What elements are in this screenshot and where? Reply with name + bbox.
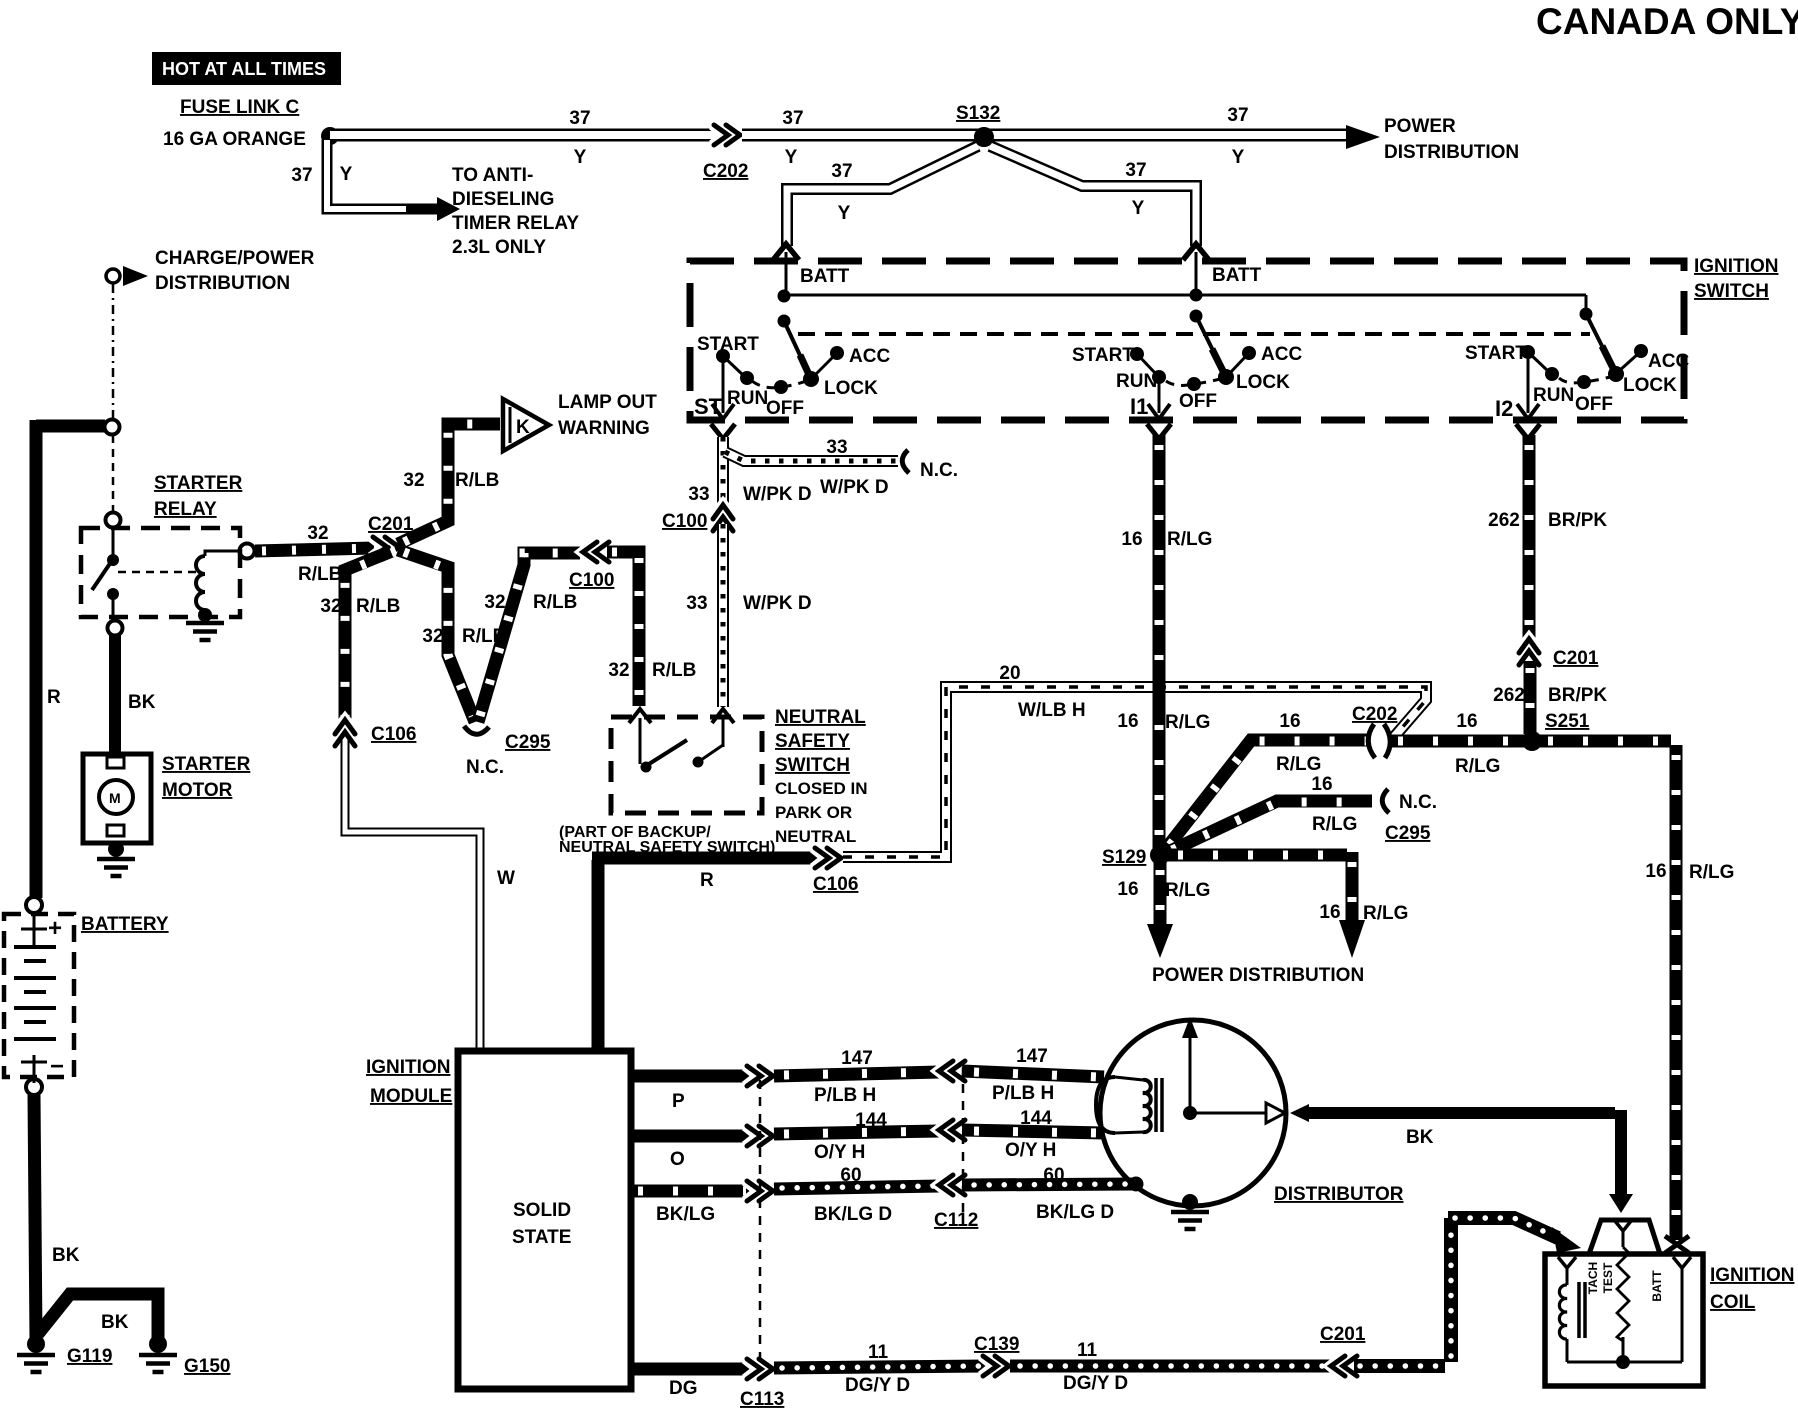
- svg-text:DISTRIBUTOR: DISTRIBUTOR: [1274, 1184, 1404, 1205]
- connector C112 pin P: [939, 1060, 966, 1082]
- svg-text:R/LG: R/LG: [1455, 756, 1500, 777]
- wire 11 DG/Y D C139 to C201: [1010, 1340, 1330, 1394]
- svg-text:32: 32: [307, 523, 328, 544]
- svg-text:S129: S129: [1102, 847, 1146, 868]
- wire 262 BR/PK I2 to C201: [1488, 435, 1607, 640]
- terminal I2 cup: [1516, 424, 1540, 439]
- lamp out warning indicator K: [503, 392, 657, 451]
- switch wafer 2: [1072, 289, 1302, 420]
- svg-text:C201: C201: [1320, 1324, 1366, 1345]
- connector C201: [368, 514, 414, 558]
- svg-text:16: 16: [1311, 774, 1332, 795]
- svg-text:DG/Y D: DG/Y D: [1063, 1373, 1128, 1394]
- terminal ST cup: [711, 424, 735, 439]
- svg-text:HOT AT ALL TIMES: HOT AT ALL TIMES: [162, 59, 326, 79]
- svg-text:R/LG: R/LG: [1165, 880, 1210, 901]
- svg-text:N.C.: N.C.: [466, 757, 504, 778]
- svg-text:262: 262: [1493, 685, 1525, 706]
- svg-text:DG: DG: [669, 1378, 698, 1399]
- svg-text:262: 262: [1488, 510, 1520, 531]
- svg-text:C106: C106: [813, 874, 858, 895]
- svg-text:144: 144: [855, 1110, 887, 1131]
- svg-text:W/PK D: W/PK D: [820, 477, 889, 498]
- svg-text:SAFETY: SAFETY: [775, 731, 850, 752]
- svg-text:2.3L ONLY: 2.3L ONLY: [452, 237, 546, 258]
- svg-text:START: START: [1465, 343, 1527, 364]
- svg-text:OFF: OFF: [1575, 394, 1613, 415]
- svg-text:32: 32: [403, 470, 424, 491]
- svg-text:LOCK: LOCK: [1236, 372, 1290, 393]
- svg-text:RUN: RUN: [1116, 371, 1157, 392]
- svg-text:MODULE: MODULE: [370, 1086, 452, 1107]
- svg-text:C100: C100: [662, 511, 707, 532]
- wire W C106 to ignition module: [345, 740, 515, 1051]
- ground G150: [139, 1335, 230, 1377]
- svg-text:FUSE LINK C: FUSE LINK C: [180, 97, 300, 118]
- connector C139: [974, 1334, 1019, 1377]
- svg-text:LAMP OUT: LAMP OUT: [558, 392, 657, 413]
- svg-text:C139: C139: [974, 1334, 1019, 1355]
- svg-text:DG/Y D: DG/Y D: [845, 1375, 910, 1396]
- svg-text:R: R: [700, 870, 714, 891]
- svg-text:C202: C202: [703, 161, 748, 182]
- terminal charge/power distribution: [106, 248, 315, 294]
- svg-text:37: 37: [569, 108, 590, 129]
- svg-text:DISTRIBUTION: DISTRIBUTION: [155, 273, 290, 294]
- svg-text:BATT: BATT: [1212, 265, 1262, 286]
- svg-text:60: 60: [840, 1165, 861, 1186]
- svg-text:IGNITION: IGNITION: [366, 1057, 450, 1078]
- svg-text:CANADA ONLY: CANADA ONLY: [1536, 1, 1798, 42]
- svg-text:SWITCH: SWITCH: [775, 755, 850, 776]
- title CANADA ONLY: [1536, 1, 1798, 42]
- wire 16 R/LG S129 to N.C. C295: [1166, 774, 1372, 853]
- svg-text:SWITCH: SWITCH: [1694, 281, 1769, 302]
- svg-text:BK/LG: BK/LG: [656, 1204, 715, 1225]
- connector C201 bottom: [1320, 1324, 1366, 1377]
- svg-text:11: 11: [868, 1342, 889, 1363]
- wire 11 DG/Y D C201 to ignition coil: [1354, 1218, 1581, 1366]
- svg-text:W/PK D: W/PK D: [743, 593, 812, 614]
- arrow to power distribution: [1346, 116, 1519, 163]
- node S251: [1522, 711, 1590, 751]
- wire 32 R/LB C295 to C100: [478, 553, 580, 722]
- wire 37 Y C202 to S132: [742, 108, 984, 168]
- wire 33 W/PK D branch to N.C.: [725, 437, 898, 498]
- wire O module output: [631, 1136, 750, 1170]
- svg-text:O/Y H: O/Y H: [1005, 1140, 1056, 1161]
- svg-text:37: 37: [1125, 160, 1146, 181]
- switch wafer 3: [1465, 308, 1689, 422]
- wire 144 O/Y H to distributor: [962, 1108, 1104, 1161]
- svg-text:R: R: [47, 687, 61, 708]
- svg-text:BK: BK: [101, 1312, 129, 1333]
- svg-text:37: 37: [291, 165, 312, 186]
- svg-text:START: START: [697, 334, 759, 355]
- wire dashed accessory bus: [798, 332, 1590, 336]
- wire 33 W/PK D ST to C100: [688, 437, 811, 505]
- node S132: [956, 103, 1000, 147]
- svg-text:BK: BK: [128, 692, 156, 713]
- svg-text:Y: Y: [340, 164, 353, 185]
- connector C113 pin DG: [740, 1358, 784, 1408]
- arrow to anti-dieseling timer relay: [406, 165, 579, 258]
- wire BK battery to ground G119: [34, 1095, 80, 1340]
- svg-text:STARTER: STARTER: [154, 473, 243, 494]
- svg-text:Y: Y: [838, 203, 851, 224]
- svg-text:P/LB H: P/LB H: [992, 1083, 1054, 1104]
- svg-text:LOCK: LOCK: [1623, 375, 1677, 396]
- svg-text:R/LB: R/LB: [455, 470, 499, 491]
- battery: [4, 897, 169, 1095]
- svg-text:N.C.: N.C.: [920, 460, 958, 481]
- connector C202: [703, 124, 748, 182]
- svg-text:32: 32: [320, 596, 341, 617]
- terminal BATT 2: [1183, 244, 1262, 296]
- wire 20 W/LB H C106 to C202: [843, 663, 1426, 857]
- svg-text:G150: G150: [184, 1356, 230, 1377]
- connector C106 on R wire: [813, 847, 858, 895]
- svg-text:MOTOR: MOTOR: [162, 780, 233, 801]
- svg-text:DISTRIBUTION: DISTRIBUTION: [1384, 142, 1519, 163]
- wire I1 crossing overlay: [1153, 675, 1166, 700]
- starter motor: [83, 754, 251, 876]
- svg-text:LOCK: LOCK: [824, 378, 878, 399]
- svg-text:20: 20: [999, 663, 1020, 684]
- connector boundary C113 dashed: [759, 1080, 762, 1365]
- svg-text:16 GA ORANGE: 16 GA ORANGE: [163, 129, 306, 150]
- svg-text:16: 16: [1121, 529, 1142, 550]
- wire 11 DG/Y D to C139: [774, 1342, 986, 1396]
- svg-text:C202: C202: [1352, 704, 1397, 725]
- wire 37 Y S132 to power distribution: [984, 105, 1350, 168]
- wire 37 Y S132 right branch to BATT: [990, 146, 1196, 246]
- svg-text:R/LG: R/LG: [1363, 903, 1408, 924]
- wire 16 R/LG S129 to power distribution arrow: [1117, 860, 1364, 986]
- wire 32 R/LB C201 to lamp out warning: [398, 424, 500, 544]
- svg-text:WARNING: WARNING: [558, 418, 650, 439]
- svg-text:R/LG: R/LG: [1165, 712, 1210, 733]
- wire 16 R/LG I1 to S129: [1117, 435, 1212, 848]
- svg-text:NEUTRAL: NEUTRAL: [775, 707, 866, 728]
- wire 32 R/LB C201 to C295: [398, 550, 506, 722]
- svg-text:C113: C113: [740, 1389, 784, 1408]
- svg-text:IGNITION: IGNITION: [1694, 256, 1778, 277]
- svg-text:BATTERY: BATTERY: [81, 914, 169, 935]
- wire 37 Y fuse link to C202: [330, 108, 716, 168]
- svg-text:SOLID: SOLID: [513, 1200, 571, 1221]
- wire 32 R/LB relay to C201: [255, 523, 374, 585]
- svg-text:R/LG: R/LG: [1276, 754, 1321, 775]
- svg-text:32: 32: [608, 660, 629, 681]
- ignition module: [366, 1051, 631, 1389]
- svg-text:16: 16: [1117, 879, 1138, 900]
- svg-text:16: 16: [1117, 711, 1138, 732]
- node S129: [1102, 845, 1170, 868]
- wire BK branch to ground G150: [38, 1294, 158, 1340]
- wire BATT bus: [784, 295, 1586, 314]
- neutral safety switch: [559, 707, 868, 856]
- svg-text:C100: C100: [569, 570, 614, 591]
- svg-text:33: 33: [688, 484, 709, 505]
- svg-text:BR/PK: BR/PK: [1548, 685, 1607, 706]
- terminal N.C. top: [902, 450, 958, 481]
- svg-text:147: 147: [841, 1048, 873, 1069]
- wire P module output: [631, 1076, 750, 1112]
- wire dash-dot to starter relay: [112, 284, 115, 419]
- wire 144 O/Y H to C112: [774, 1110, 940, 1163]
- wire 60 BK/LG D to distributor: [962, 1165, 1136, 1223]
- terminal N.C. C295 right: [1382, 789, 1437, 844]
- svg-text:33: 33: [686, 593, 707, 614]
- svg-text:TACH: TACH: [1586, 1262, 1600, 1294]
- svg-text:C106: C106: [371, 724, 416, 745]
- connector C202 right: [1352, 704, 1397, 758]
- svg-text:S251: S251: [1545, 711, 1590, 732]
- svg-text:N.C.: N.C.: [1399, 792, 1437, 813]
- svg-text:37: 37: [782, 108, 803, 129]
- connector C201 right: [1518, 639, 1599, 669]
- wire charge distribution to battery: [36, 420, 105, 898]
- svg-text:STATE: STATE: [512, 1227, 571, 1248]
- wire 147 P/LB H to C112: [774, 1048, 940, 1106]
- svg-text:C295: C295: [1385, 823, 1431, 844]
- wire BK distributor to ignition coil: [1290, 1104, 1633, 1213]
- svg-text:I2: I2: [1495, 396, 1513, 421]
- distributor: [1096, 1017, 1404, 1229]
- svg-text:16: 16: [1645, 861, 1666, 882]
- svg-text:OFF: OFF: [766, 398, 804, 419]
- svg-text:R/LB: R/LB: [356, 596, 400, 617]
- svg-text:Y: Y: [1132, 198, 1145, 219]
- connector C106: [334, 720, 416, 747]
- svg-text:R/LB: R/LB: [533, 592, 577, 613]
- node S132 dot overlay: [974, 127, 994, 147]
- svg-text:ST: ST: [694, 394, 723, 419]
- svg-text:BATT: BATT: [1650, 1270, 1664, 1302]
- wire 37 Y branch down to anti-dieseling relay: [291, 140, 410, 209]
- terminal N.C. C295: [464, 726, 551, 778]
- ignition coil: [1545, 1220, 1794, 1386]
- node junction circle: [105, 420, 120, 435]
- wire 16 R/LG S129 to C202: [1165, 711, 1368, 850]
- svg-text:C201: C201: [368, 514, 414, 535]
- svg-text:ACC: ACC: [849, 346, 890, 367]
- connector C112 pin BK/LG: [934, 1174, 978, 1231]
- svg-text:16: 16: [1319, 902, 1340, 923]
- svg-text:147: 147: [1016, 1046, 1048, 1067]
- svg-text:144: 144: [1020, 1108, 1052, 1129]
- starter relay: [81, 473, 255, 640]
- connector C113 pin O: [746, 1125, 773, 1147]
- svg-text:NEUTRAL: NEUTRAL: [775, 827, 856, 846]
- connector C100 on ST wire: [662, 505, 734, 532]
- svg-text:P: P: [672, 1091, 685, 1112]
- wire R ignition module to C106: [592, 858, 818, 1051]
- terminal BATT 1: [773, 244, 850, 296]
- svg-text:CLOSED IN: CLOSED IN: [775, 779, 868, 798]
- svg-text:IGNITION: IGNITION: [1710, 1265, 1794, 1286]
- svg-text:BK: BK: [1406, 1127, 1434, 1148]
- wire 16 R/LG S251 to ignition coil: [1538, 741, 1734, 1240]
- label HOT AT ALL TIMES: [152, 52, 341, 85]
- svg-text:OFF: OFF: [1179, 391, 1217, 412]
- svg-text:−: −: [50, 1053, 64, 1080]
- svg-text:STARTER: STARTER: [162, 754, 251, 775]
- switch wafer 1: [694, 290, 890, 420]
- svg-text:R/LG: R/LG: [1167, 529, 1212, 550]
- svg-text:BK/LG D: BK/LG D: [814, 1204, 892, 1225]
- svg-text:Y: Y: [574, 147, 587, 168]
- svg-text:RUN: RUN: [1533, 385, 1574, 406]
- wire DG module output: [631, 1369, 750, 1399]
- wire 16 R/LG C202 to S251: [1390, 711, 1528, 777]
- wire 37 Y S132 left branch to BATT: [787, 146, 978, 246]
- wire BK/LG module output: [631, 1191, 750, 1225]
- svg-text:60: 60: [1043, 1165, 1064, 1186]
- connector boundary C112 dashed: [962, 1067, 965, 1214]
- svg-text:BR/PK: BR/PK: [1548, 510, 1607, 531]
- node fuse link origin: [321, 127, 339, 145]
- wire 16 R/LG S129 right to power distribution arrow: [1168, 852, 1408, 958]
- connector C113 pin BK/LG: [746, 1180, 773, 1202]
- svg-text:33: 33: [826, 437, 847, 458]
- wire 147 P/LB H to distributor: [962, 1046, 1104, 1104]
- svg-text:R/LB: R/LB: [652, 660, 696, 681]
- wire 262 BR/PK C201 to S251: [1493, 661, 1607, 734]
- svg-text:RELAY: RELAY: [154, 499, 217, 520]
- svg-text:BK/LG D: BK/LG D: [1036, 1202, 1114, 1223]
- svg-text:START: START: [1072, 345, 1134, 366]
- svg-text:C295: C295: [505, 732, 551, 753]
- svg-text:M: M: [109, 790, 121, 806]
- ignition switch box: [690, 256, 1778, 420]
- svg-text:C201: C201: [1553, 648, 1599, 669]
- svg-text:BK: BK: [52, 1245, 80, 1266]
- svg-text:11: 11: [1077, 1340, 1098, 1361]
- svg-text:I1: I1: [1130, 394, 1148, 419]
- svg-text:C112: C112: [934, 1210, 978, 1231]
- svg-text:CHARGE/POWER: CHARGE/POWER: [155, 248, 315, 269]
- wire dashed junction to relay: [112, 435, 115, 512]
- svg-text:+: +: [48, 915, 62, 942]
- wire 60 BK/LG D to C112: [774, 1165, 940, 1225]
- svg-text:G119: G119: [67, 1346, 112, 1367]
- svg-text:W: W: [497, 868, 515, 889]
- connector C100: [569, 541, 614, 591]
- svg-text:W/LB H: W/LB H: [1018, 700, 1086, 721]
- svg-text:O/Y H: O/Y H: [814, 1142, 865, 1163]
- svg-text:PARK OR: PARK OR: [775, 803, 852, 822]
- svg-text:S132: S132: [956, 103, 1000, 124]
- wire 33 W/PK D C100 to neutral safety switch: [686, 524, 811, 707]
- terminal I1 cup: [1147, 424, 1171, 439]
- svg-text:TIMER RELAY: TIMER RELAY: [452, 213, 579, 234]
- svg-text:Y: Y: [785, 147, 798, 168]
- label FUSE LINK C: [180, 97, 300, 118]
- svg-text:COIL: COIL: [1710, 1292, 1756, 1313]
- wire 32 R/LB C100 to neutral safety switch: [607, 552, 696, 706]
- wire BK relay to starter motor: [115, 635, 156, 755]
- svg-text:16: 16: [1456, 711, 1477, 732]
- svg-text:POWER: POWER: [1384, 116, 1456, 137]
- svg-text:32: 32: [484, 592, 505, 613]
- svg-text:BATT: BATT: [800, 266, 850, 287]
- connector C113 pin P: [746, 1065, 773, 1087]
- svg-text:37: 37: [831, 161, 852, 182]
- connector C112 pin O: [939, 1119, 966, 1141]
- svg-text:DIESELING: DIESELING: [452, 189, 554, 210]
- svg-text:Y: Y: [1232, 147, 1245, 168]
- ground G119: [17, 1335, 112, 1372]
- svg-text:TEST: TEST: [1601, 1262, 1615, 1293]
- svg-text:32: 32: [422, 626, 443, 647]
- svg-text:W/PK D: W/PK D: [743, 484, 812, 505]
- svg-text:ACC: ACC: [1261, 344, 1302, 365]
- svg-text:O: O: [670, 1149, 685, 1170]
- label 16 GA ORANGE: [163, 129, 306, 150]
- wire 32 R/LB C201 to C106: [320, 551, 400, 722]
- svg-text:R/LG: R/LG: [1689, 862, 1734, 883]
- svg-text:POWER DISTRIBUTION: POWER DISTRIBUTION: [1152, 965, 1364, 986]
- svg-text:R/LG: R/LG: [1312, 814, 1357, 835]
- svg-text:TO ANTI-: TO ANTI-: [452, 165, 533, 186]
- svg-text:RUN: RUN: [727, 388, 768, 409]
- svg-text:ACC: ACC: [1648, 351, 1689, 372]
- svg-text:16: 16: [1279, 711, 1300, 732]
- svg-text:37: 37: [1227, 105, 1248, 126]
- svg-text:K: K: [516, 417, 530, 438]
- svg-text:P/LB H: P/LB H: [814, 1085, 876, 1106]
- svg-text:R/LB: R/LB: [298, 564, 342, 585]
